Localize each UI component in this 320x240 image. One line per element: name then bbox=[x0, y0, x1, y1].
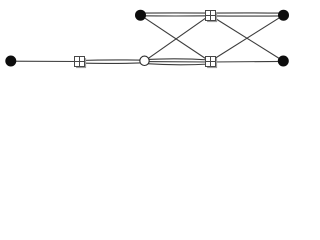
node C filled circle top-right bbox=[278, 10, 289, 21]
wire A-G diagonal bbox=[141, 15, 211, 61]
wire A-B double bbox=[141, 13, 211, 16]
node E grid square bottom-left-middle bbox=[75, 57, 87, 69]
wire G-H single bbox=[210, 60, 283, 63]
wire B-C double bbox=[210, 13, 284, 16]
node B grid square top-middle bbox=[206, 11, 218, 23]
node D filled circle bottom-left bbox=[5, 56, 16, 67]
wire B-H diagonal bbox=[210, 15, 283, 61]
node H filled circle bottom-right bbox=[278, 56, 289, 67]
wire F-G triple bbox=[145, 59, 211, 65]
node G grid square bottom-right-middle bbox=[206, 57, 218, 69]
wire D-E single bbox=[11, 60, 79, 62]
node F hollow circle bottom-middle bbox=[140, 56, 149, 65]
wire C-G diagonal bbox=[210, 15, 284, 61]
wire E-F double bbox=[79, 60, 145, 64]
node A filled circle top-left bbox=[135, 10, 146, 21]
wire B-F diagonal bbox=[145, 15, 211, 61]
